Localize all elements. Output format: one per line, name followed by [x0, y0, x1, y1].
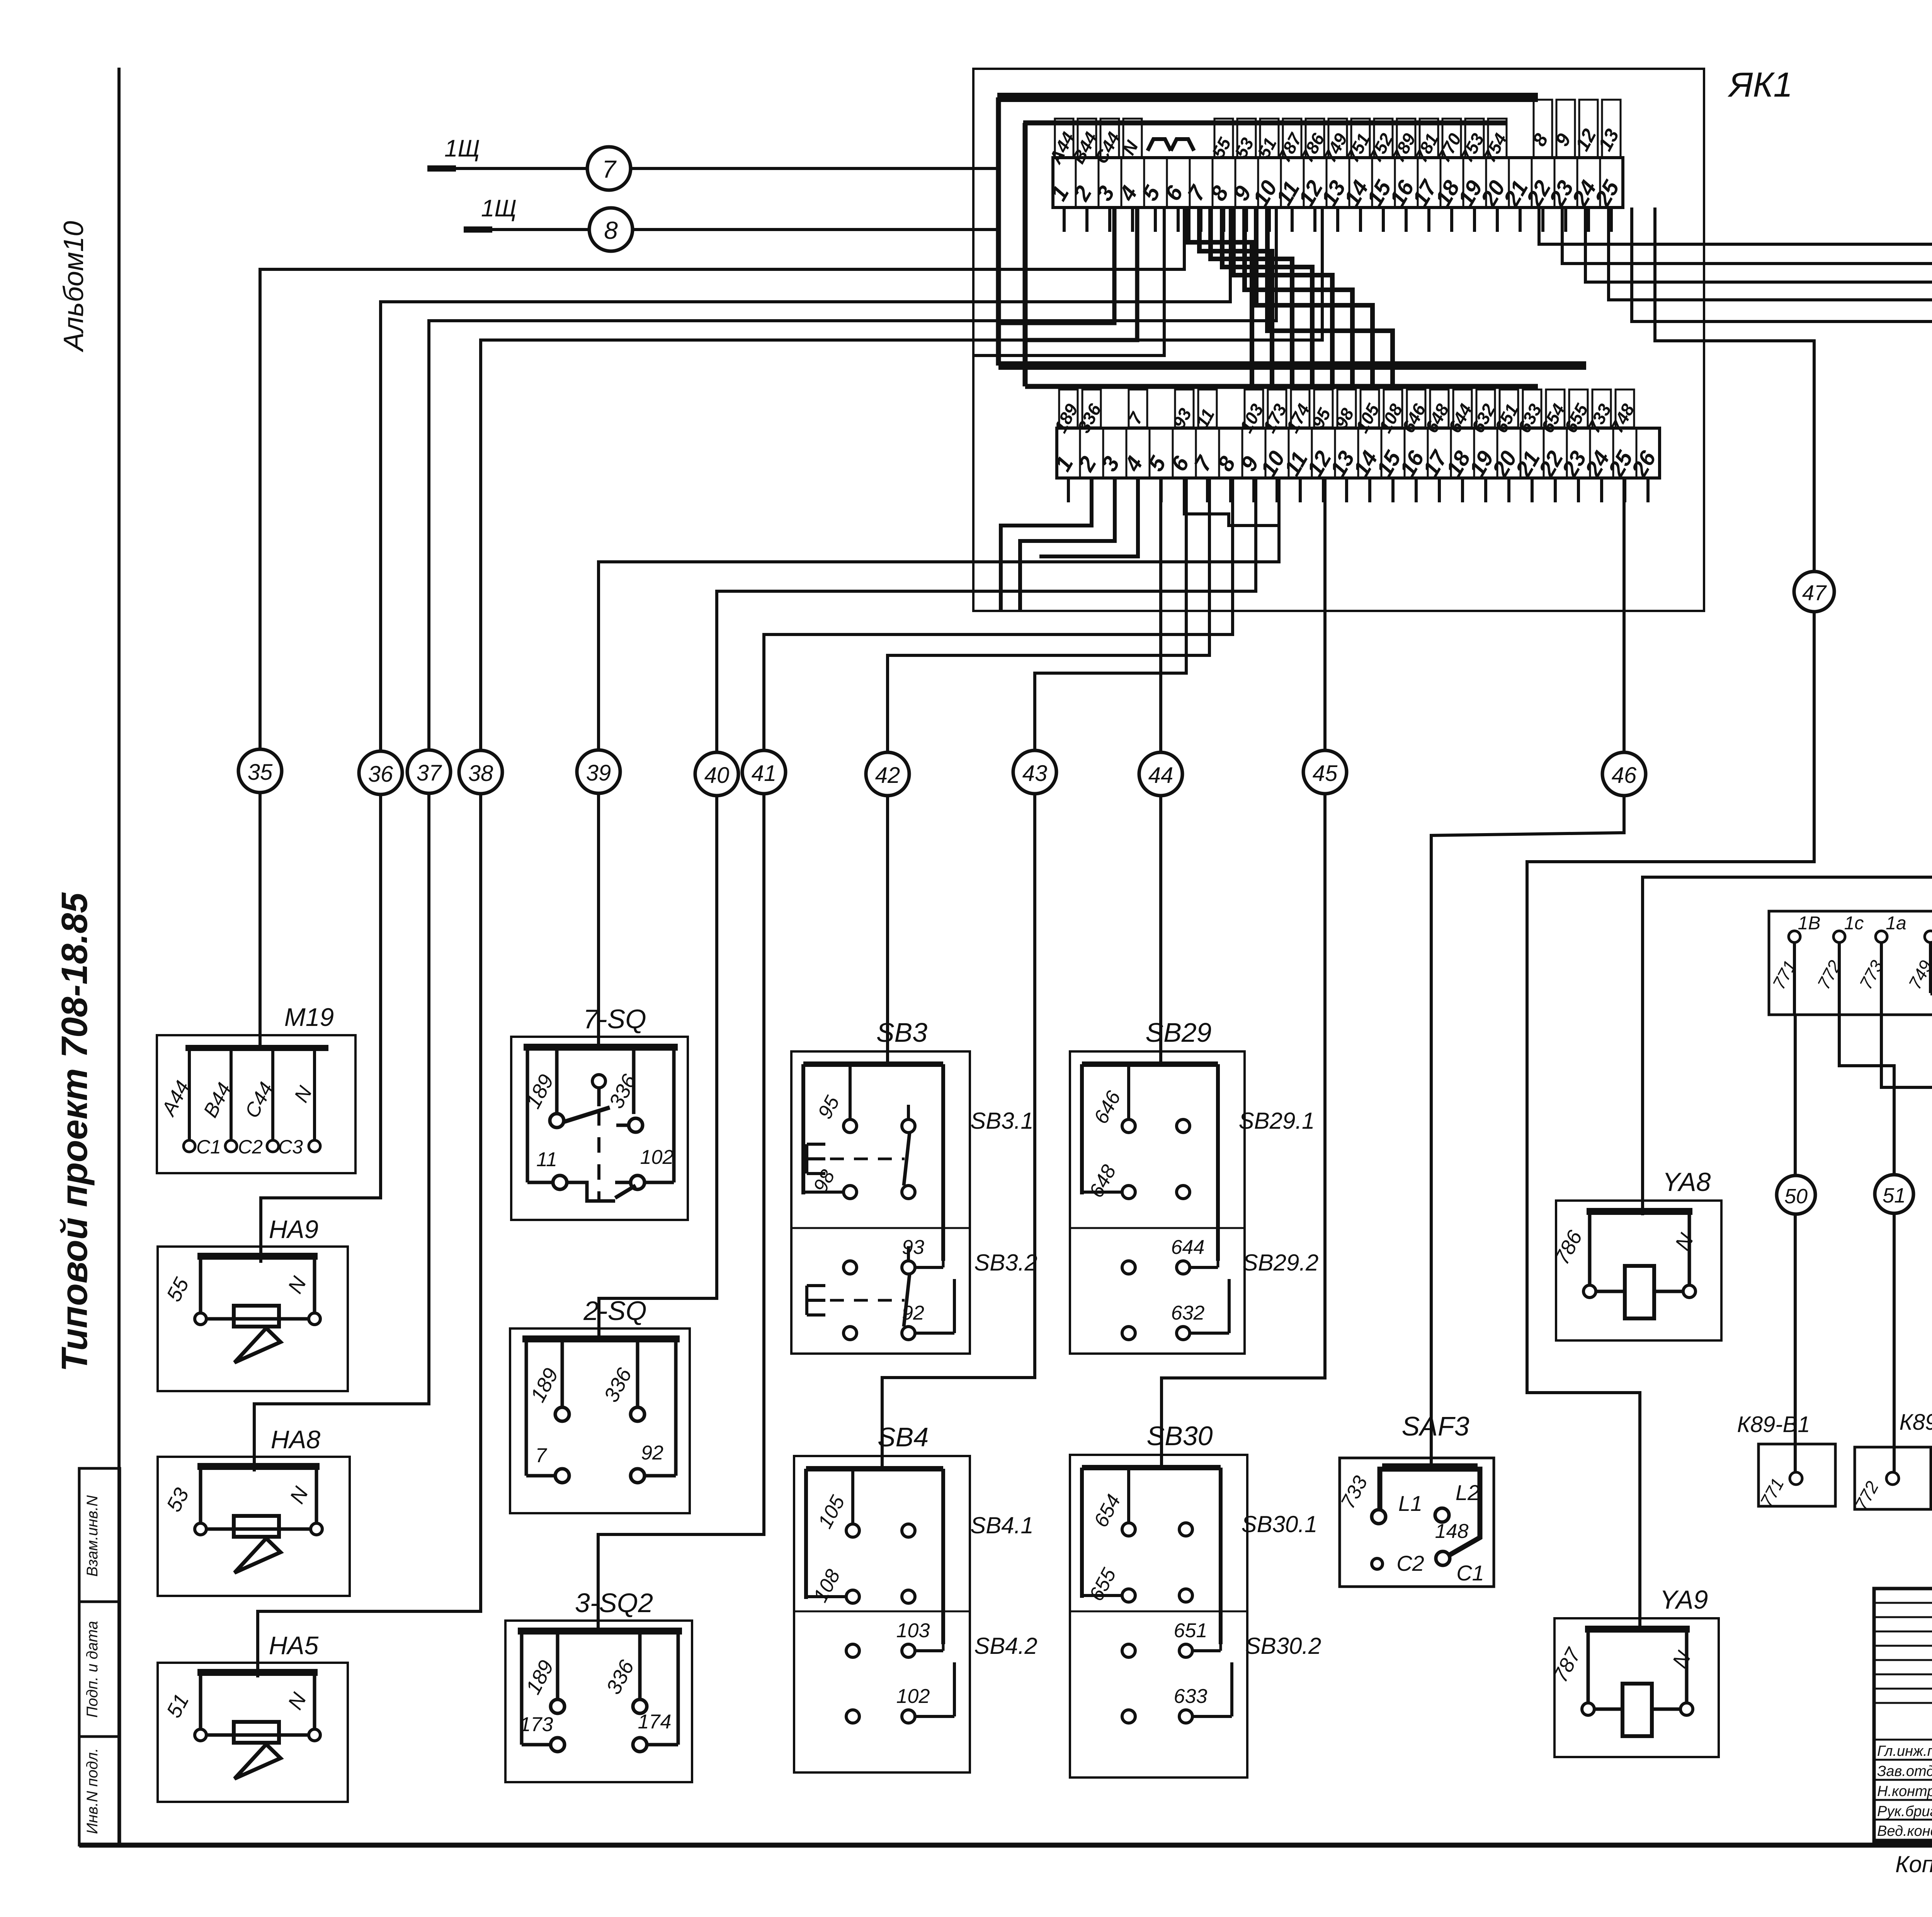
svg-text:К89-В1: К89-В1	[1737, 1412, 1810, 1437]
lower strip wire label 189 over terminal 1	[1059, 390, 1078, 427]
left highway wire level 1	[974, 208, 1164, 356]
lower strip wire label 95 over terminal 12	[1314, 390, 1333, 427]
svg-text:7: 7	[536, 1444, 548, 1467]
lower strip wire label 105 over terminal 14	[1361, 390, 1379, 427]
svg-text:37: 37	[417, 760, 442, 786]
upper strip wire label 754 over terminal 20	[1488, 119, 1507, 157]
svg-text:YA8: YA8	[1663, 1167, 1711, 1197]
upper strip bus bar 2	[1023, 121, 1507, 126]
svg-text:1c: 1c	[1844, 913, 1864, 934]
wire 55 to relay K33-BV	[1539, 208, 1932, 875]
pilot circle 41	[742, 750, 786, 794]
wire 45 to pushbutton SB30	[1162, 478, 1325, 1468]
upper strip wire label 752 over terminal 15	[1374, 119, 1393, 157]
lower strip wire label 632 over terminal 19	[1476, 390, 1495, 427]
upper strip wire label 9 over terminal 23	[1556, 100, 1575, 157]
wire 36 from upper strip to HA9	[261, 208, 1230, 1263]
svg-text:633: 633	[1174, 1685, 1207, 1708]
svg-text:41: 41	[752, 761, 777, 786]
limit switch 7-SQ	[511, 1037, 688, 1220]
upper strip wire label 751 over terminal 14	[1351, 119, 1370, 157]
pilot circle 47	[1794, 572, 1834, 612]
svg-text:1Щ: 1Щ	[481, 195, 517, 222]
wire 44 to pushbutton SB29	[1159, 478, 1162, 1064]
stamp box Инв.N подл.	[79, 1737, 120, 1845]
lower strip wire label 644 over terminal 18	[1453, 390, 1472, 427]
upper strip bus drop left 2	[1023, 123, 1028, 386]
lower strip wire label 336 over terminal 2	[1082, 390, 1101, 427]
upper strip wire label 786 over terminal 12	[1306, 119, 1324, 157]
bell HA8	[158, 1457, 350, 1596]
lower terminal strip row (terminals 1-26)	[1057, 428, 1660, 478]
upper strip wire label N over terminal 4	[1123, 119, 1142, 157]
svg-text:92: 92	[902, 1302, 924, 1324]
7-SQ bottom edge with notch	[527, 1182, 615, 1201]
connector K89-B1	[1759, 1444, 1835, 1506]
upper strip wire label 753 over terminal 19	[1465, 119, 1484, 157]
wire 47 to electromagnet YA9	[1527, 208, 1814, 1633]
svg-text:7-SQ: 7-SQ	[583, 1004, 646, 1034]
lower strip wire label 651 over terminal 20	[1500, 390, 1518, 427]
pilot circle 51	[1875, 1175, 1913, 1213]
svg-text:102: 102	[896, 1685, 930, 1708]
pilot circle 38	[459, 750, 502, 794]
svg-text:Альбом10: Альбом10	[58, 221, 89, 352]
svg-text:SB30.1: SB30.1	[1242, 1511, 1318, 1537]
K89-UZ terminal 1a	[1876, 931, 1887, 942]
motor terminal box M19	[157, 1035, 355, 1173]
station top bus	[1082, 1061, 1218, 1067]
SAF3 bus and contact path	[1380, 1469, 1480, 1556]
upper strip wire label 53 over terminal 9	[1237, 119, 1256, 157]
sheet left border line	[117, 68, 121, 1845]
svg-text:40: 40	[704, 763, 730, 788]
upper strip wire label 789 over terminal 16	[1397, 119, 1415, 157]
svg-text:Взам.инв.N: Взам.инв.N	[84, 1495, 101, 1577]
wire 49 to pushbutton SB39 via K89	[1609, 208, 1932, 1142]
svg-text:SB3.1: SB3.1	[970, 1108, 1033, 1134]
limit switch 3-SQ2	[505, 1621, 692, 1782]
lower strip wire label 93 over terminal 6	[1175, 390, 1194, 427]
wire 52 from K89 773 to K89-B3	[1881, 1015, 1932, 1472]
svg-text:Инв.N подл.: Инв.N подл.	[84, 1748, 101, 1834]
svg-text:43: 43	[1022, 761, 1048, 786]
pilot circle 43	[1013, 750, 1056, 794]
wire 48 to electromagnet YA8	[1632, 208, 1932, 1215]
station top bus	[806, 1466, 943, 1471]
K89-UZ terminal 1c	[1833, 931, 1845, 942]
pilot circle 40	[695, 752, 738, 796]
pilot circle 45	[1303, 750, 1347, 794]
wire 43 to pushbutton SB4	[882, 478, 1186, 1468]
svg-text:38: 38	[468, 761, 493, 786]
lower strip wire label 108 over terminal 15	[1384, 390, 1402, 427]
svg-text:С2: С2	[1396, 1551, 1424, 1575]
K89-UZ wires from 1B 1c 1a down	[1793, 942, 1796, 1015]
svg-text:С1: С1	[1456, 1561, 1484, 1585]
wire 38 from upper strip to HA5	[258, 208, 1322, 1677]
electromagnet YA8	[1556, 1201, 1721, 1340]
svg-text:92: 92	[641, 1442, 663, 1464]
svg-text:44: 44	[1148, 763, 1173, 788]
svg-text:644: 644	[1171, 1236, 1205, 1259]
svg-text:L2: L2	[1456, 1480, 1480, 1505]
7-SQ lower contacts	[553, 1175, 567, 1189]
svg-text:НА5: НА5	[269, 1631, 319, 1660]
svg-text:SB29.2: SB29.2	[1243, 1250, 1319, 1276]
svg-text:1Щ: 1Щ	[444, 135, 480, 162]
station top bus	[1082, 1465, 1221, 1470]
upper strip wire label 749 over terminal 13	[1328, 119, 1347, 157]
svg-text:SB30.2: SB30.2	[1245, 1633, 1321, 1659]
svg-text:НА9: НА9	[269, 1215, 318, 1243]
K89-UZ terminal 1B	[1789, 931, 1800, 942]
pilot circle 35	[238, 749, 282, 793]
bell HA9	[158, 1247, 348, 1391]
svg-text:93: 93	[902, 1236, 924, 1259]
lower strip wire label 655 over terminal 23	[1569, 390, 1588, 427]
svg-text:7: 7	[602, 155, 617, 183]
lower strip bus bar 2	[1025, 384, 1538, 389]
svg-text:45: 45	[1313, 761, 1338, 786]
wire 53 to pushbutton SB39	[1585, 208, 1932, 1064]
pilot circle 46	[1602, 752, 1646, 796]
lower strip wire label 7 over terminal 4	[1129, 390, 1147, 427]
svg-text:102: 102	[640, 1146, 674, 1169]
wire 39 to limit switch 7-SQ	[599, 478, 1279, 1048]
pilot circle 8	[589, 208, 633, 251]
wire 50 from K89 771 to K89-B1	[1794, 1015, 1797, 1472]
lower strip terminal stubs	[1067, 478, 1070, 502]
bell HA5	[158, 1663, 348, 1802]
wire 42 to pushbutton SB3	[888, 478, 1209, 1064]
upper terminal strip row (terminals 1-25)	[1053, 158, 1623, 208]
svg-text:SB4.2: SB4.2	[974, 1633, 1037, 1659]
svg-text:42: 42	[875, 763, 900, 788]
upper strip wire label С44 over terminal 3	[1100, 119, 1119, 157]
stamp box Взам.инв.N	[79, 1468, 120, 1602]
button actuator section 1	[807, 1144, 825, 1174]
upper strip wire label 51 over terminal 10	[1260, 119, 1279, 157]
svg-text:К89-В2: К89-В2	[1900, 1410, 1932, 1435]
pushbutton station SB3	[791, 1051, 970, 1354]
svg-text:SB3: SB3	[876, 1017, 927, 1048]
pushbutton station SB4	[794, 1456, 970, 1772]
svg-text:SB3.2: SB3.2	[974, 1250, 1037, 1276]
svg-text:Рук.бриг.: Рук.бриг.	[1877, 1803, 1932, 1820]
staircase under lower strip	[1001, 478, 1092, 611]
svg-text:НА8: НА8	[271, 1425, 321, 1454]
svg-text:632: 632	[1171, 1302, 1205, 1324]
svg-text:50: 50	[1784, 1185, 1808, 1208]
lower strip wire label 173 over terminal 10	[1268, 390, 1286, 427]
K89-UZ internal bottom bus	[1930, 991, 1932, 995]
lower strip bus bar 1	[998, 361, 1586, 370]
svg-text:173: 173	[520, 1713, 553, 1736]
sheet bottom border line	[79, 1843, 1932, 1848]
pilot circle 37	[407, 750, 451, 793]
svg-text:С2: С2	[238, 1136, 263, 1158]
svg-text:Типовой проект 708-18.85: Типовой проект 708-18.85	[54, 892, 95, 1372]
signature rows	[1874, 1739, 1932, 1741]
wire 37 from upper strip to HA8	[254, 208, 1276, 1471]
pushbutton station SB30	[1070, 1455, 1247, 1778]
svg-text:1a: 1a	[1886, 913, 1906, 934]
svg-text:Копировал: Шнайдер: Копировал: Шнайдер	[1895, 1851, 1932, 1877]
connector K89-B2	[1855, 1447, 1931, 1509]
svg-text:2-SQ: 2-SQ	[583, 1296, 646, 1326]
thick staircase wires upper strip to left drop	[1000, 208, 1114, 323]
upper strip wire label 781 over terminal 17	[1420, 119, 1438, 157]
lower strip wire label 633 over terminal 21	[1523, 390, 1541, 427]
upper strip wire label В44 over terminal 2	[1078, 119, 1096, 157]
lower strip wire label 748 over terminal 25	[1616, 390, 1634, 427]
terminal block ЯК1 outline	[973, 69, 1704, 611]
svg-text:ЯК1: ЯК1	[1728, 66, 1793, 104]
stamp box Подп. и дата	[79, 1602, 120, 1737]
svg-text:SB29: SB29	[1145, 1017, 1211, 1048]
station top bus	[803, 1061, 943, 1067]
upper strip wire label 12 over terminal 24	[1579, 100, 1598, 157]
svg-text:С1: С1	[196, 1136, 221, 1158]
thick staircase wires upper-to-lower strip	[1188, 208, 1252, 390]
wire 54 to relay K32-BV	[1562, 208, 1932, 1135]
lower strip wire label 646 over terminal 16	[1407, 390, 1425, 427]
svg-text:Подп. и дата: Подп. и дата	[84, 1621, 101, 1718]
K89-UZ terminal 7a	[1925, 931, 1932, 942]
button actuator section 2	[807, 1286, 825, 1315]
lower strip wire label 11 over terminal 7	[1198, 390, 1217, 427]
wire 1Щ line 8	[464, 228, 998, 231]
electromagnet YA9	[1554, 1618, 1719, 1757]
limit switch 2-SQ	[510, 1328, 690, 1513]
svg-text:47: 47	[1802, 580, 1827, 605]
lower strip wire label 648 over terminal 17	[1430, 390, 1449, 427]
wire 46 to switch SAF3	[1431, 478, 1624, 1468]
upper strip bus bar 1	[997, 93, 1538, 102]
pilot circle 7	[587, 147, 631, 190]
svg-text:3-SQ2: 3-SQ2	[575, 1588, 653, 1618]
svg-text:L1: L1	[1398, 1491, 1422, 1516]
svg-text:8: 8	[604, 216, 618, 244]
pushbutton station SB29	[1070, 1051, 1245, 1354]
interface block K89-UZ outline	[1769, 911, 1932, 1015]
svg-text:11: 11	[536, 1148, 557, 1171]
svg-text:39: 39	[586, 760, 611, 786]
upper strip wire label А44 over terminal 1	[1055, 119, 1073, 157]
wire 41 to limit switch 3-SQ2	[598, 478, 1233, 1634]
wire 1Щ line 7	[427, 167, 998, 170]
upper strip wire label 55 over terminal 8	[1214, 119, 1233, 157]
7-SQ pivot	[592, 1075, 605, 1088]
svg-text:1B: 1B	[1798, 913, 1821, 934]
pilot circle 42	[866, 752, 909, 796]
lower strip wire label 654 over terminal 22	[1546, 390, 1565, 427]
pilot circle 36	[359, 751, 402, 794]
svg-text:46: 46	[1612, 763, 1637, 788]
svg-text:Гл.инж.пр: Гл.инж.пр	[1877, 1743, 1932, 1759]
upper strip wire label 13 over terminal 25	[1602, 100, 1621, 157]
svg-text:М19: М19	[284, 1003, 334, 1031]
svg-text:Зав.отд: Зав.отд	[1877, 1763, 1932, 1779]
svg-text:35: 35	[248, 760, 273, 785]
lower strip wire label 174 over terminal 11	[1291, 390, 1310, 427]
upper strip terminal stubs	[1063, 208, 1066, 232]
lower strip wire label 98 over terminal 13	[1337, 390, 1356, 427]
svg-text:Вед.конст.: Вед.конст.	[1877, 1823, 1932, 1839]
svg-text:174: 174	[638, 1711, 672, 1733]
lower strip wire label 103 over terminal 9	[1245, 390, 1263, 427]
wire 51 from K89 772 to K89-B2	[1839, 1015, 1894, 1472]
svg-text:651: 651	[1174, 1619, 1207, 1642]
pilot circle 44	[1139, 752, 1182, 796]
svg-text:YA9: YA9	[1660, 1585, 1708, 1614]
lower strip wire label 733 over terminal 24	[1592, 390, 1611, 427]
svg-text:36: 36	[368, 762, 393, 787]
svg-text:Н.контр.: Н.контр.	[1877, 1783, 1932, 1800]
upper strip wire label 8 over terminal 22	[1534, 100, 1552, 157]
svg-text:SAF3: SAF3	[1401, 1411, 1469, 1441]
svg-text:51: 51	[1883, 1184, 1906, 1207]
svg-text:С3: С3	[278, 1136, 303, 1158]
switch SAF3	[1340, 1458, 1494, 1587]
upper strip wire label 787 over terminal 11	[1283, 119, 1301, 157]
7-SQ contact blade	[563, 1107, 610, 1122]
wire 40 to limit switch 2-SQ	[599, 478, 1256, 1341]
svg-text:148: 148	[1435, 1520, 1469, 1543]
title block outline	[1874, 1589, 1932, 1841]
upper strip wire label 770 over terminal 18	[1442, 119, 1461, 157]
svg-text:SB29.1: SB29.1	[1239, 1108, 1315, 1134]
pilot circle 39	[577, 750, 620, 793]
svg-text:103: 103	[896, 1619, 930, 1642]
upper strip bus drop left 1	[996, 97, 1001, 366]
svg-text:SB4.1: SB4.1	[970, 1512, 1033, 1538]
pilot circle 50	[1777, 1175, 1815, 1214]
bridge link over upper terminals 5-7	[1148, 139, 1171, 151]
wire 35 from upper strip to M19	[260, 208, 1184, 1048]
svg-text:SB4: SB4	[878, 1422, 929, 1452]
svg-text:SB30: SB30	[1146, 1421, 1213, 1451]
